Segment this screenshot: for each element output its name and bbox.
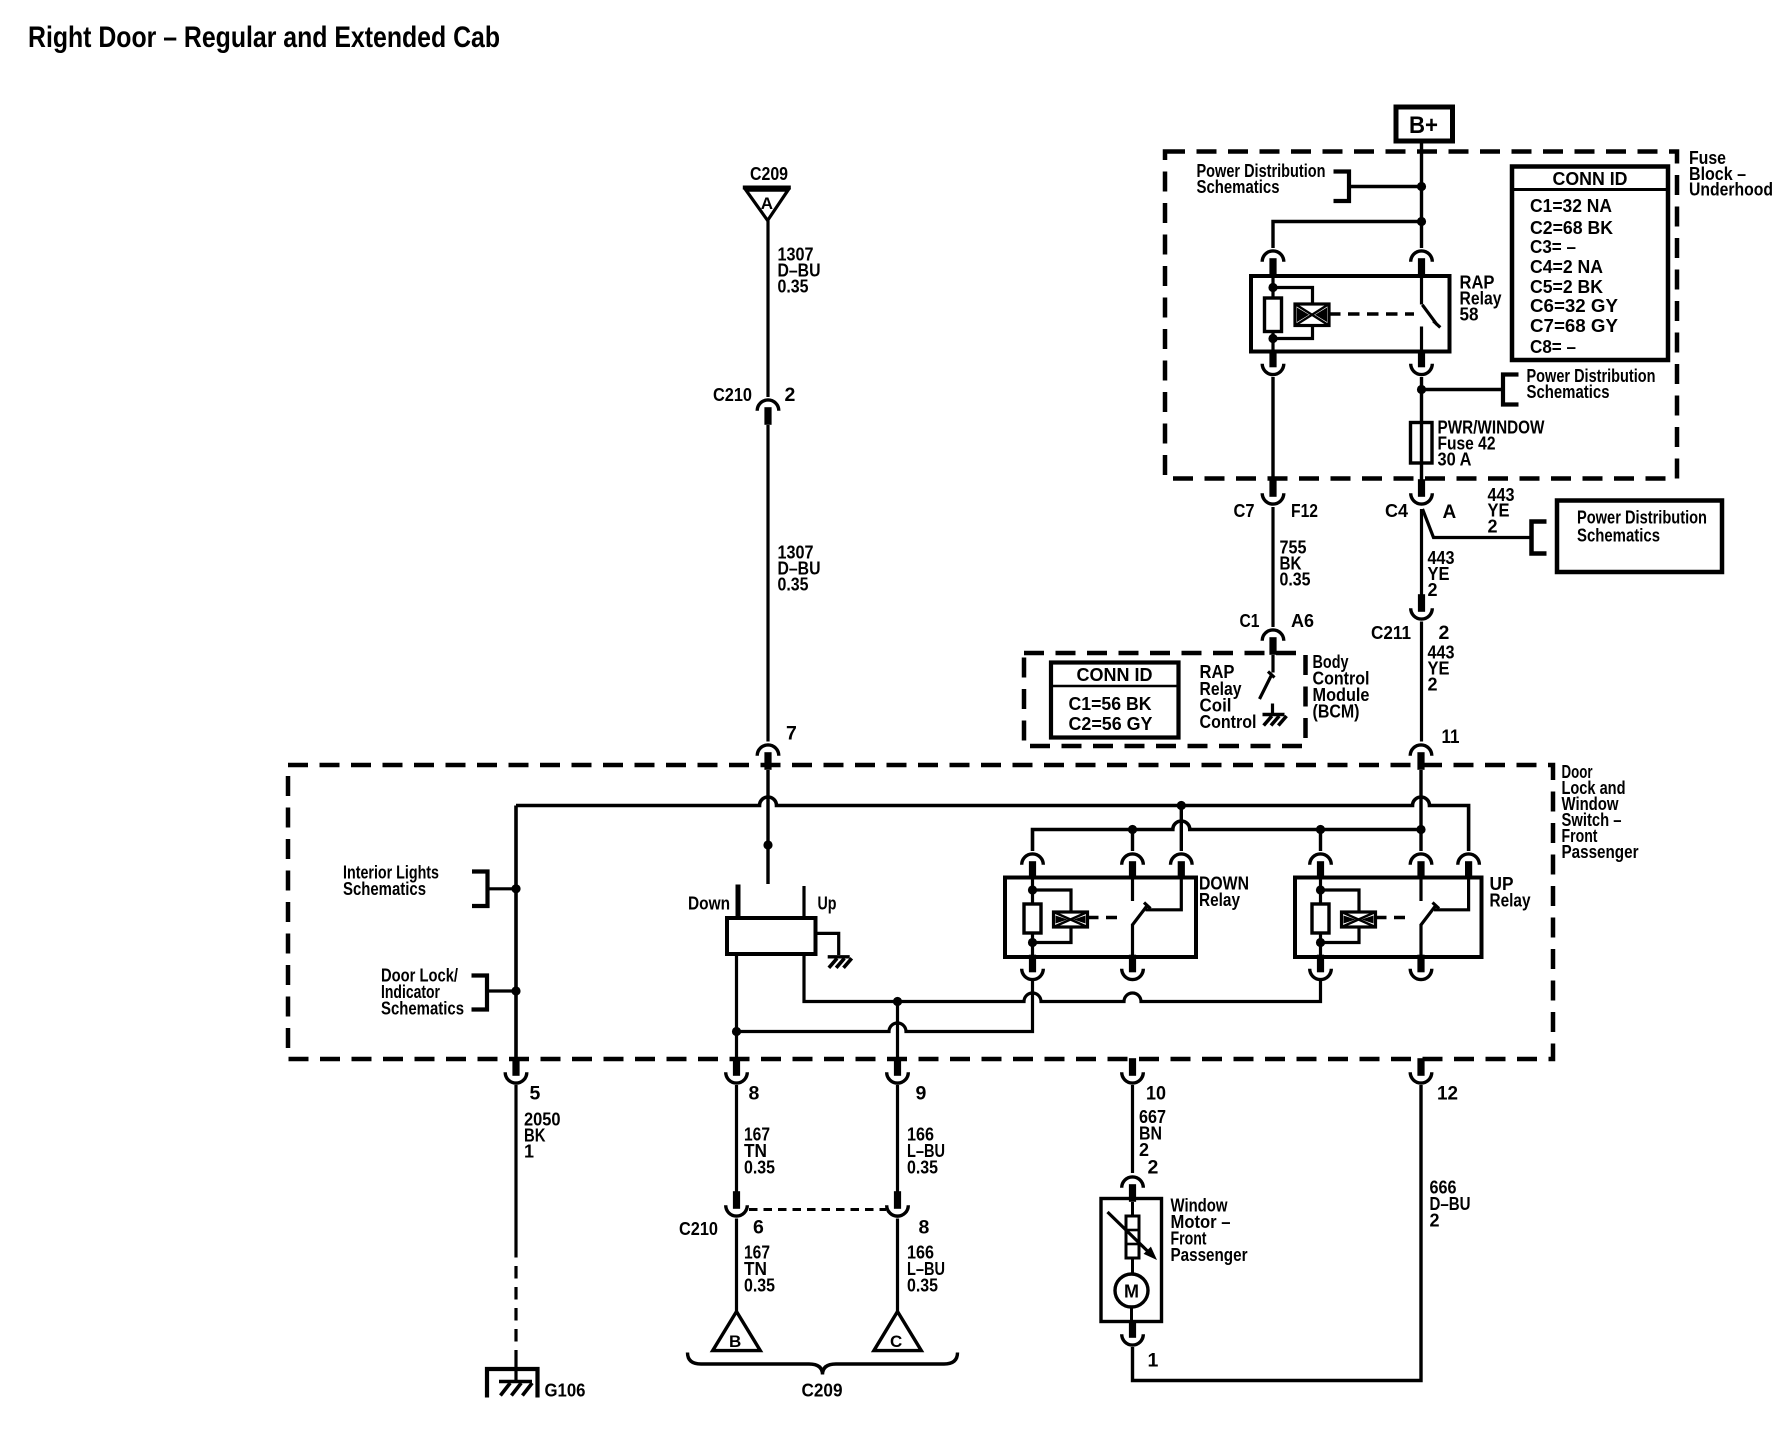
switch connector pin 9 bbox=[887, 1058, 909, 1083]
svg-text:2: 2 bbox=[1488, 517, 1498, 537]
DOWN relay coil top pin bbox=[1022, 854, 1044, 879]
svg-text:C7: C7 bbox=[1234, 501, 1255, 521]
switch connector pin 12 bbox=[1410, 1058, 1432, 1083]
wire switch Up output to UP relay coil (hops relay pin wires) bbox=[804, 954, 1321, 1002]
label Body Control Module (BCM) bbox=[1313, 652, 1370, 722]
svg-text:CONN ID: CONN ID bbox=[1553, 169, 1628, 189]
UP relay NO top pin bbox=[1458, 854, 1480, 879]
wire 2050 BK solid segment bbox=[514, 1085, 517, 1245]
UP relay NO contact internal wire bbox=[1434, 878, 1469, 910]
UP relay switch common top pin bbox=[1410, 854, 1432, 879]
svg-text:C1=32 NA: C1=32 NA bbox=[1530, 196, 1612, 216]
wire label 167 TN 0.35 (upper) bbox=[744, 1125, 775, 1178]
RAP relay box bbox=[1251, 276, 1450, 352]
DOWN relay NO top pin bbox=[1171, 854, 1193, 879]
svg-text:Right Door – Regular and Exten: Right Door – Regular and Extended Cab bbox=[28, 21, 500, 54]
svg-text:8: 8 bbox=[749, 1083, 760, 1105]
svg-text:2: 2 bbox=[785, 384, 796, 406]
svg-text:A6: A6 bbox=[1291, 611, 1314, 631]
svg-text:C2=68 BK: C2=68 BK bbox=[1530, 218, 1613, 238]
BCM switch to ground bbox=[1260, 655, 1275, 715]
RAP relay solenoid links bbox=[1273, 288, 1313, 339]
wire 167 TN lower bbox=[735, 1219, 738, 1312]
svg-text:0.35: 0.35 bbox=[1280, 570, 1311, 590]
svg-text:C209: C209 bbox=[750, 164, 788, 184]
off-page triangle connector B (C209) bbox=[713, 1312, 761, 1352]
DOWN relay coil bottom pin bbox=[1022, 955, 1044, 980]
svg-text:C7=68 GY: C7=68 GY bbox=[1530, 316, 1618, 336]
label Power Distribution Schematics (mid) bbox=[1527, 366, 1656, 402]
svg-text:F12: F12 bbox=[1291, 501, 1318, 521]
wire 1307 D-BU upper segment bbox=[766, 221, 769, 398]
UP relay solenoid X-box bbox=[1342, 912, 1376, 927]
svg-text:Passenger: Passenger bbox=[1562, 842, 1639, 862]
ground (window switch) bbox=[828, 957, 852, 968]
svg-text:Schematics: Schematics bbox=[1577, 526, 1660, 546]
junction dot B+ branch 2 bbox=[1417, 217, 1426, 226]
svg-text:30 A: 30 A bbox=[1438, 450, 1472, 470]
off-page triangle connector C (C209) bbox=[874, 1312, 921, 1352]
svg-text:0.35: 0.35 bbox=[907, 1158, 938, 1178]
wire B+ down bbox=[1420, 141, 1423, 248]
wire 166 L-BU lower bbox=[896, 1219, 899, 1312]
wire to power distribution bracket bbox=[1422, 388, 1502, 391]
wire bracket to bus bbox=[488, 887, 517, 890]
junction dot bus1 to DOWN relay NO contact bbox=[1177, 801, 1186, 810]
label Door Lock/Indicator Schematics bbox=[381, 966, 464, 1019]
wire 1307 D-BU lower segment bbox=[766, 425, 769, 742]
svg-text:8: 8 bbox=[919, 1217, 930, 1239]
svg-text:2: 2 bbox=[1428, 675, 1438, 695]
labels C7 F12 bbox=[1234, 501, 1319, 521]
wire 755 BK from C7 to C1 bbox=[1271, 507, 1274, 627]
window switch Down contact post bbox=[736, 885, 741, 919]
DOWN relay solenoid links bbox=[1033, 890, 1072, 943]
svg-text:2: 2 bbox=[1428, 580, 1438, 600]
svg-text:10: 10 bbox=[1146, 1083, 1166, 1105]
svg-text:0.35: 0.35 bbox=[778, 575, 809, 595]
UP relay coil bbox=[1312, 878, 1329, 957]
dashed enclosure Fuse Block - Underhood bbox=[1165, 152, 1677, 479]
off-page bracket Interior Lights bbox=[472, 872, 488, 907]
UP relay actuator dashed link bbox=[1376, 916, 1411, 919]
svg-text:0.35: 0.35 bbox=[778, 277, 809, 297]
wire label 666 D-BU 2 bbox=[1430, 1178, 1471, 1231]
wire interior lights feed (left vertical) bbox=[514, 806, 518, 1059]
svg-text:6: 6 bbox=[753, 1217, 764, 1239]
off-page bracket Door Lock/Indicator bbox=[472, 976, 488, 1010]
brace C209 grouping bbox=[688, 1353, 958, 1375]
CONN ID table (BCM) bbox=[1051, 663, 1179, 738]
wire bus with hops (upper horizontal bus) bbox=[516, 797, 1469, 851]
DOWN relay box bbox=[1005, 878, 1196, 958]
svg-text:C2=56 GY: C2=56 GY bbox=[1069, 714, 1153, 734]
connector C211 pin 2 bbox=[1411, 594, 1433, 619]
UP relay switch blade bbox=[1421, 903, 1440, 926]
DOWN relay NO contact internal wire bbox=[1146, 878, 1182, 910]
svg-text:Control: Control bbox=[1200, 712, 1257, 732]
svg-text:C6=32 GY: C6=32 GY bbox=[1530, 296, 1618, 316]
window motor box bbox=[1101, 1199, 1162, 1322]
wire label 755 BK 0.35 bbox=[1280, 538, 1311, 590]
label PWR/WINDOW Fuse 42 30 A bbox=[1438, 418, 1545, 470]
window motor label bbox=[1171, 1196, 1248, 1266]
svg-text:(BCM): (BCM) bbox=[1313, 702, 1360, 722]
svg-text:C211: C211 bbox=[1371, 623, 1411, 643]
battery feed B+ box bbox=[1396, 107, 1453, 141]
DOWN relay switch common top pin bbox=[1122, 854, 1144, 879]
svg-text:58: 58 bbox=[1460, 305, 1479, 325]
label Fuse Block - Underhood bbox=[1689, 148, 1773, 200]
svg-text:C: C bbox=[890, 1332, 902, 1351]
RAP relay switch top pin bbox=[1411, 251, 1433, 276]
svg-text:CONN ID: CONN ID bbox=[1077, 665, 1153, 685]
wire bracket to B+ wire bbox=[1349, 185, 1422, 188]
svg-text:Schematics: Schematics bbox=[343, 879, 426, 899]
wire bus2 (relay feed bus y=829.5) bbox=[1033, 821, 1422, 851]
RAP relay label bbox=[1460, 273, 1502, 325]
UP relay coil top pin bbox=[1310, 854, 1332, 879]
svg-text:9: 9 bbox=[916, 1083, 927, 1105]
connector C210 pin 6 bbox=[726, 1191, 748, 1216]
ground G106 symbol bbox=[499, 1382, 532, 1396]
motor thermal breaker bbox=[1126, 1202, 1139, 1275]
off-page bracket Power Distribution (right) bbox=[1532, 522, 1547, 554]
wire label 443 YE 2 (branch) bbox=[1488, 485, 1515, 537]
wire bracket to bus bbox=[487, 989, 516, 992]
svg-text:C210: C210 bbox=[679, 1219, 718, 1239]
svg-text:Relay: Relay bbox=[1199, 890, 1240, 910]
wire branch to RAP relay coil bbox=[1273, 222, 1422, 249]
RAP relay switch blade bbox=[1422, 305, 1440, 328]
window switch ground arm bbox=[816, 933, 839, 955]
RAP relay coil bbox=[1265, 275, 1282, 352]
svg-text:0.35: 0.35 bbox=[744, 1158, 775, 1178]
UP relay switch bottom pin bbox=[1410, 955, 1432, 980]
wire Down output to DOWN relay coil (hops pin9 wire) bbox=[737, 981, 1033, 1032]
svg-text:7: 7 bbox=[786, 723, 797, 745]
wire label 166 L-BU 0.35 (upper) bbox=[907, 1125, 945, 1178]
svg-text:Up: Up bbox=[818, 894, 837, 914]
wire UP relay coil feed bbox=[1319, 830, 1322, 852]
motor M circle bbox=[1115, 1274, 1148, 1307]
motor connector pin 10 bbox=[1122, 1058, 1144, 1083]
dashed enclosure Body Control Module bbox=[1024, 653, 1306, 746]
DOWN relay switch common internal bbox=[1131, 878, 1134, 901]
RAP relay actuator dashed link bbox=[1329, 312, 1414, 315]
DOWN relay label bbox=[1199, 874, 1249, 911]
svg-text:Underhood: Underhood bbox=[1689, 180, 1773, 200]
svg-text:1: 1 bbox=[1148, 1350, 1159, 1372]
CONN ID table (fuse block) bbox=[1512, 167, 1668, 361]
RAP relay solenoid X-box bbox=[1295, 304, 1329, 326]
connector C210 pin 2 bbox=[757, 400, 779, 425]
wire pin 9 branch bbox=[896, 1002, 899, 1060]
DOWN relay switch bottom pin bbox=[1122, 955, 1144, 980]
UP relay solenoid links bbox=[1321, 890, 1360, 943]
labels C211 2 bbox=[1371, 622, 1450, 644]
window switch body bbox=[727, 918, 816, 954]
svg-text:G106: G106 bbox=[545, 1381, 586, 1401]
wire label 1307 D-BU 0.35 (upper) bbox=[778, 245, 821, 297]
C210 row labels bbox=[679, 1217, 764, 1240]
motor breaker arrow bbox=[1108, 1212, 1158, 1260]
window motor pin 1 connector bbox=[1122, 1320, 1144, 1345]
wire label 443 YE 2 (upper) bbox=[1428, 548, 1455, 600]
connector C210 pin 2 labels bbox=[713, 384, 796, 406]
off-page bracket Power Distribution (mid) bbox=[1503, 375, 1519, 405]
wire DOWN relay switch feed bbox=[1131, 830, 1134, 852]
svg-text:B: B bbox=[729, 1332, 741, 1351]
label Interior Lights Schematics bbox=[343, 863, 439, 900]
junction dot B+ branch 1 bbox=[1417, 182, 1426, 191]
wire 2050 BK dashed segment to ground bbox=[514, 1245, 517, 1352]
svg-text:C3= –: C3= – bbox=[1530, 237, 1576, 257]
svg-text:Relay: Relay bbox=[1490, 891, 1531, 911]
wire DOWN relay NO contact feed bbox=[1180, 806, 1183, 852]
ground (BCM internal) bbox=[1263, 715, 1287, 726]
svg-text:A: A bbox=[1443, 502, 1457, 523]
wire 166 L-BU upper bbox=[896, 1085, 899, 1195]
wire 443 YE to pin 11 bbox=[1420, 622, 1423, 742]
window switch Up contact post bbox=[802, 886, 805, 918]
junction dot Down output bbox=[732, 1027, 741, 1036]
switch connector pin 7 bbox=[757, 745, 779, 770]
DOWN relay actuator dashed link bbox=[1088, 916, 1123, 919]
junction dot power distribution branch bbox=[1417, 385, 1426, 394]
dashed enclosure: Door Lock and Window Switch - Front Passenger bbox=[288, 765, 1553, 1059]
svg-text:C4=2 NA: C4=2 NA bbox=[1530, 257, 1603, 277]
motor bottom lead bbox=[1130, 1307, 1133, 1322]
svg-text:0.35: 0.35 bbox=[907, 1276, 938, 1296]
svg-text:C209: C209 bbox=[802, 1381, 843, 1401]
labels C4 A bbox=[1385, 501, 1457, 523]
junction dots on bus2 bbox=[1128, 825, 1137, 834]
svg-text:2: 2 bbox=[1439, 622, 1450, 644]
svg-text:C8= –: C8= – bbox=[1530, 337, 1576, 357]
junction dot door lock indicator bbox=[511, 986, 520, 995]
svg-text:Schematics: Schematics bbox=[1197, 177, 1280, 197]
UP relay switch output internal bbox=[1419, 925, 1422, 958]
junction dot Up output / pin 9 branch bbox=[893, 997, 902, 1006]
wire 443 YE down to C211 bbox=[1420, 509, 1423, 597]
svg-text:5: 5 bbox=[530, 1083, 541, 1105]
RAP relay switch bottom pin bbox=[1411, 350, 1433, 375]
RAP relay switch common internal bbox=[1420, 275, 1423, 305]
wire RAP coil output to C7 bbox=[1271, 377, 1274, 481]
RAP relay switch output internal bbox=[1420, 327, 1423, 352]
RAP relay coil bottom pin bbox=[1262, 350, 1284, 375]
junction dot on switch common wire bbox=[763, 840, 772, 849]
wire motor return to pin 12 bbox=[1133, 1085, 1422, 1381]
switch connector pin 5 bbox=[505, 1058, 527, 1083]
wire C4 branch to power distribution box bbox=[1423, 509, 1531, 538]
svg-text:1: 1 bbox=[524, 1142, 534, 1162]
svg-text:C1: C1 bbox=[1240, 611, 1260, 631]
connector C210 pin 8 (second) bbox=[887, 1191, 909, 1216]
wire pin 11 to bus2 bbox=[1419, 770, 1422, 851]
off-page bracket Power Distribution (top) bbox=[1334, 172, 1350, 202]
UP relay label bbox=[1490, 874, 1531, 911]
svg-text:2: 2 bbox=[1148, 1157, 1159, 1179]
svg-text:M: M bbox=[1124, 1282, 1139, 1302]
junction dot interior lights bbox=[511, 884, 520, 893]
UP relay box bbox=[1295, 878, 1482, 958]
labels C1 A6 bbox=[1240, 611, 1315, 631]
DOWN relay solenoid X-box bbox=[1054, 912, 1088, 927]
DOWN relay coil bbox=[1024, 878, 1041, 957]
switch connector pin 8 bbox=[726, 1058, 748, 1083]
UP relay coil bottom pin bbox=[1310, 955, 1332, 980]
wire label 2050 BK 1 bbox=[524, 1110, 561, 1162]
label RAP Relay Coil Control bbox=[1200, 662, 1257, 732]
RAP relay coil top pin bbox=[1262, 251, 1284, 276]
fuse block pin C7 bbox=[1262, 479, 1284, 504]
svg-text:Power Distribution: Power Distribution bbox=[1577, 508, 1707, 528]
svg-text:12: 12 bbox=[1437, 1083, 1458, 1105]
svg-text:C1=56 BK: C1=56 BK bbox=[1069, 694, 1152, 714]
switch connector pin 11 bbox=[1410, 745, 1432, 770]
BCM connector C1/A6 bbox=[1262, 630, 1284, 655]
svg-text:B+: B+ bbox=[1409, 112, 1438, 139]
wire Down output to pin 8 bbox=[735, 1032, 738, 1060]
svg-text:Down: Down bbox=[688, 894, 730, 914]
label Door Lock and Window Switch - Front Passenger bbox=[1562, 762, 1639, 862]
window motor pin 2 connector bbox=[1122, 1177, 1144, 1202]
wire label 166 L-BU 0.35 (lower) bbox=[907, 1243, 945, 1296]
label Power Distribution Schematics (top) bbox=[1197, 161, 1326, 197]
wire switch Down output bbox=[735, 954, 738, 1032]
fuse PWR/WINDOW 42 element bbox=[1411, 423, 1433, 482]
wire label 1307 D-BU 0.35 (lower) bbox=[778, 543, 821, 595]
svg-text:C4: C4 bbox=[1385, 501, 1408, 521]
wire label 443 YE 2 (lower) bbox=[1428, 643, 1455, 695]
fuse block pin C4 bbox=[1411, 479, 1433, 504]
svg-text:11: 11 bbox=[1442, 726, 1460, 748]
Power Distribution Schematics box bbox=[1557, 501, 1722, 573]
ground G106 enclosure bbox=[487, 1369, 538, 1398]
wire 667 BN bbox=[1131, 1085, 1134, 1173]
svg-text:Passenger: Passenger bbox=[1171, 1245, 1248, 1265]
svg-text:A: A bbox=[761, 194, 773, 213]
svg-text:Schematics: Schematics bbox=[1527, 382, 1610, 402]
wire pin7 to window switch common bbox=[766, 770, 769, 884]
svg-text:C210: C210 bbox=[713, 385, 752, 405]
DOWN relay switch blade bbox=[1132, 903, 1151, 926]
svg-text:2: 2 bbox=[1430, 1211, 1440, 1231]
dashed connector link C210 bbox=[749, 1208, 886, 1211]
svg-text:0.35: 0.35 bbox=[744, 1276, 775, 1296]
UP relay switch common internal bbox=[1419, 878, 1422, 901]
svg-text:C5=2 BK: C5=2 BK bbox=[1530, 277, 1603, 297]
wire label 167 TN 0.35 (lower) bbox=[744, 1243, 775, 1296]
wire 167 TN upper bbox=[735, 1085, 738, 1195]
off-page triangle connector A (C209) bbox=[743, 188, 791, 221]
DOWN relay switch output internal bbox=[1131, 925, 1134, 958]
wire RAP switch output down bbox=[1420, 377, 1423, 423]
svg-text:Schematics: Schematics bbox=[381, 999, 464, 1019]
wire label 667 BN 2 bbox=[1139, 1107, 1166, 1160]
